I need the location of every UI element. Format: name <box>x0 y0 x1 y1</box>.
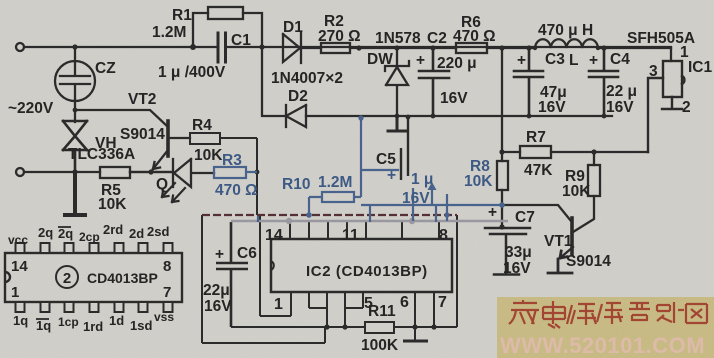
resistor R11 <box>365 322 394 333</box>
LED Q <box>151 159 214 187</box>
resistor R2 <box>321 43 350 53</box>
wire <box>130 171 151 173</box>
blue labels <box>215 152 493 207</box>
zener DW 1N578 <box>385 48 409 116</box>
wire blue bus <box>361 204 502 206</box>
ground under DW <box>388 116 407 131</box>
wire emitter arrowhead VT2 <box>153 162 160 169</box>
transistor VT2 <box>77 110 190 169</box>
wire <box>350 47 456 49</box>
wire R10 left drop <box>308 197 310 215</box>
terminal input bottom <box>16 168 24 176</box>
gray dots <box>286 218 415 224</box>
resistor R10 <box>322 192 354 202</box>
wire left loop around IC2 <box>202 215 325 343</box>
capacitor C3 <box>514 48 543 116</box>
resistor R7 <box>503 146 648 158</box>
resistor R8 <box>497 161 508 190</box>
wire lower rail <box>24 171 172 173</box>
blue arrowhead <box>428 182 437 190</box>
wire vertical node 260 to pin1 loop <box>260 215 291 316</box>
wire blue vertical from rail to R10 <box>360 118 362 197</box>
capacitor C2 <box>419 48 449 116</box>
capacitor C1 <box>218 33 226 62</box>
wire <box>487 47 535 49</box>
blue arrow at C5 <box>431 186 433 206</box>
watermark box <box>497 297 714 358</box>
dots bottom bus <box>324 324 436 329</box>
dashed dark-red bus <box>202 214 457 216</box>
bus R11 row <box>231 326 457 328</box>
diode D1 <box>283 33 321 63</box>
capacitor C6 <box>216 222 248 327</box>
triac VH TLC336A <box>63 121 87 172</box>
gray bleed line <box>231 220 508 222</box>
resistor R5 <box>100 167 130 178</box>
IC2 box <box>271 239 452 292</box>
vertical feed to R7/R8 <box>501 48 503 228</box>
junction dots bottom rail <box>395 114 400 119</box>
resistor R3 (blue) <box>214 167 257 178</box>
inductor L <box>535 39 598 48</box>
VT1 emitter arrow + ground <box>548 251 572 273</box>
LED arrows <box>162 183 185 202</box>
node dots right <box>499 149 504 154</box>
wire bottom rail <box>306 115 612 117</box>
wire right loop <box>456 215 458 327</box>
wire blue drops to IC2 <box>258 188 447 222</box>
wire R4 to bus (dark) <box>190 133 457 343</box>
capacitor CZ <box>55 47 95 122</box>
capacitor C5 <box>401 117 408 180</box>
junction dots top rail <box>72 44 606 230</box>
wire blue to C5 left plate <box>361 169 399 171</box>
IC2 top pin stubs <box>290 221 439 239</box>
terminal input top <box>16 43 24 51</box>
IC2 bottom pin stubs and wiring <box>291 292 434 340</box>
blue dots <box>306 115 505 217</box>
ground <box>65 172 85 215</box>
DIP package CD4013BP <box>5 253 182 302</box>
capacitor C7 <box>485 228 530 275</box>
wire top rail <box>24 47 671 61</box>
node dots left <box>73 108 78 113</box>
transistor VT1 <box>502 196 594 258</box>
diode D2 branch riser <box>262 47 286 116</box>
resistor R1 <box>193 7 262 47</box>
watermark chinese chars <box>509 300 707 328</box>
ground pin6 <box>403 340 428 343</box>
resistor R9 <box>588 152 600 196</box>
opto IC1 SFH505A <box>648 61 684 152</box>
wire <box>598 47 671 49</box>
circled 2 <box>56 266 78 288</box>
blue net <box>258 118 502 222</box>
IC2 notch <box>271 261 274 270</box>
resistor R6 <box>456 43 487 53</box>
capacitor C4 <box>589 48 618 116</box>
resistor R4 <box>190 133 220 144</box>
diode D2 <box>286 105 306 127</box>
